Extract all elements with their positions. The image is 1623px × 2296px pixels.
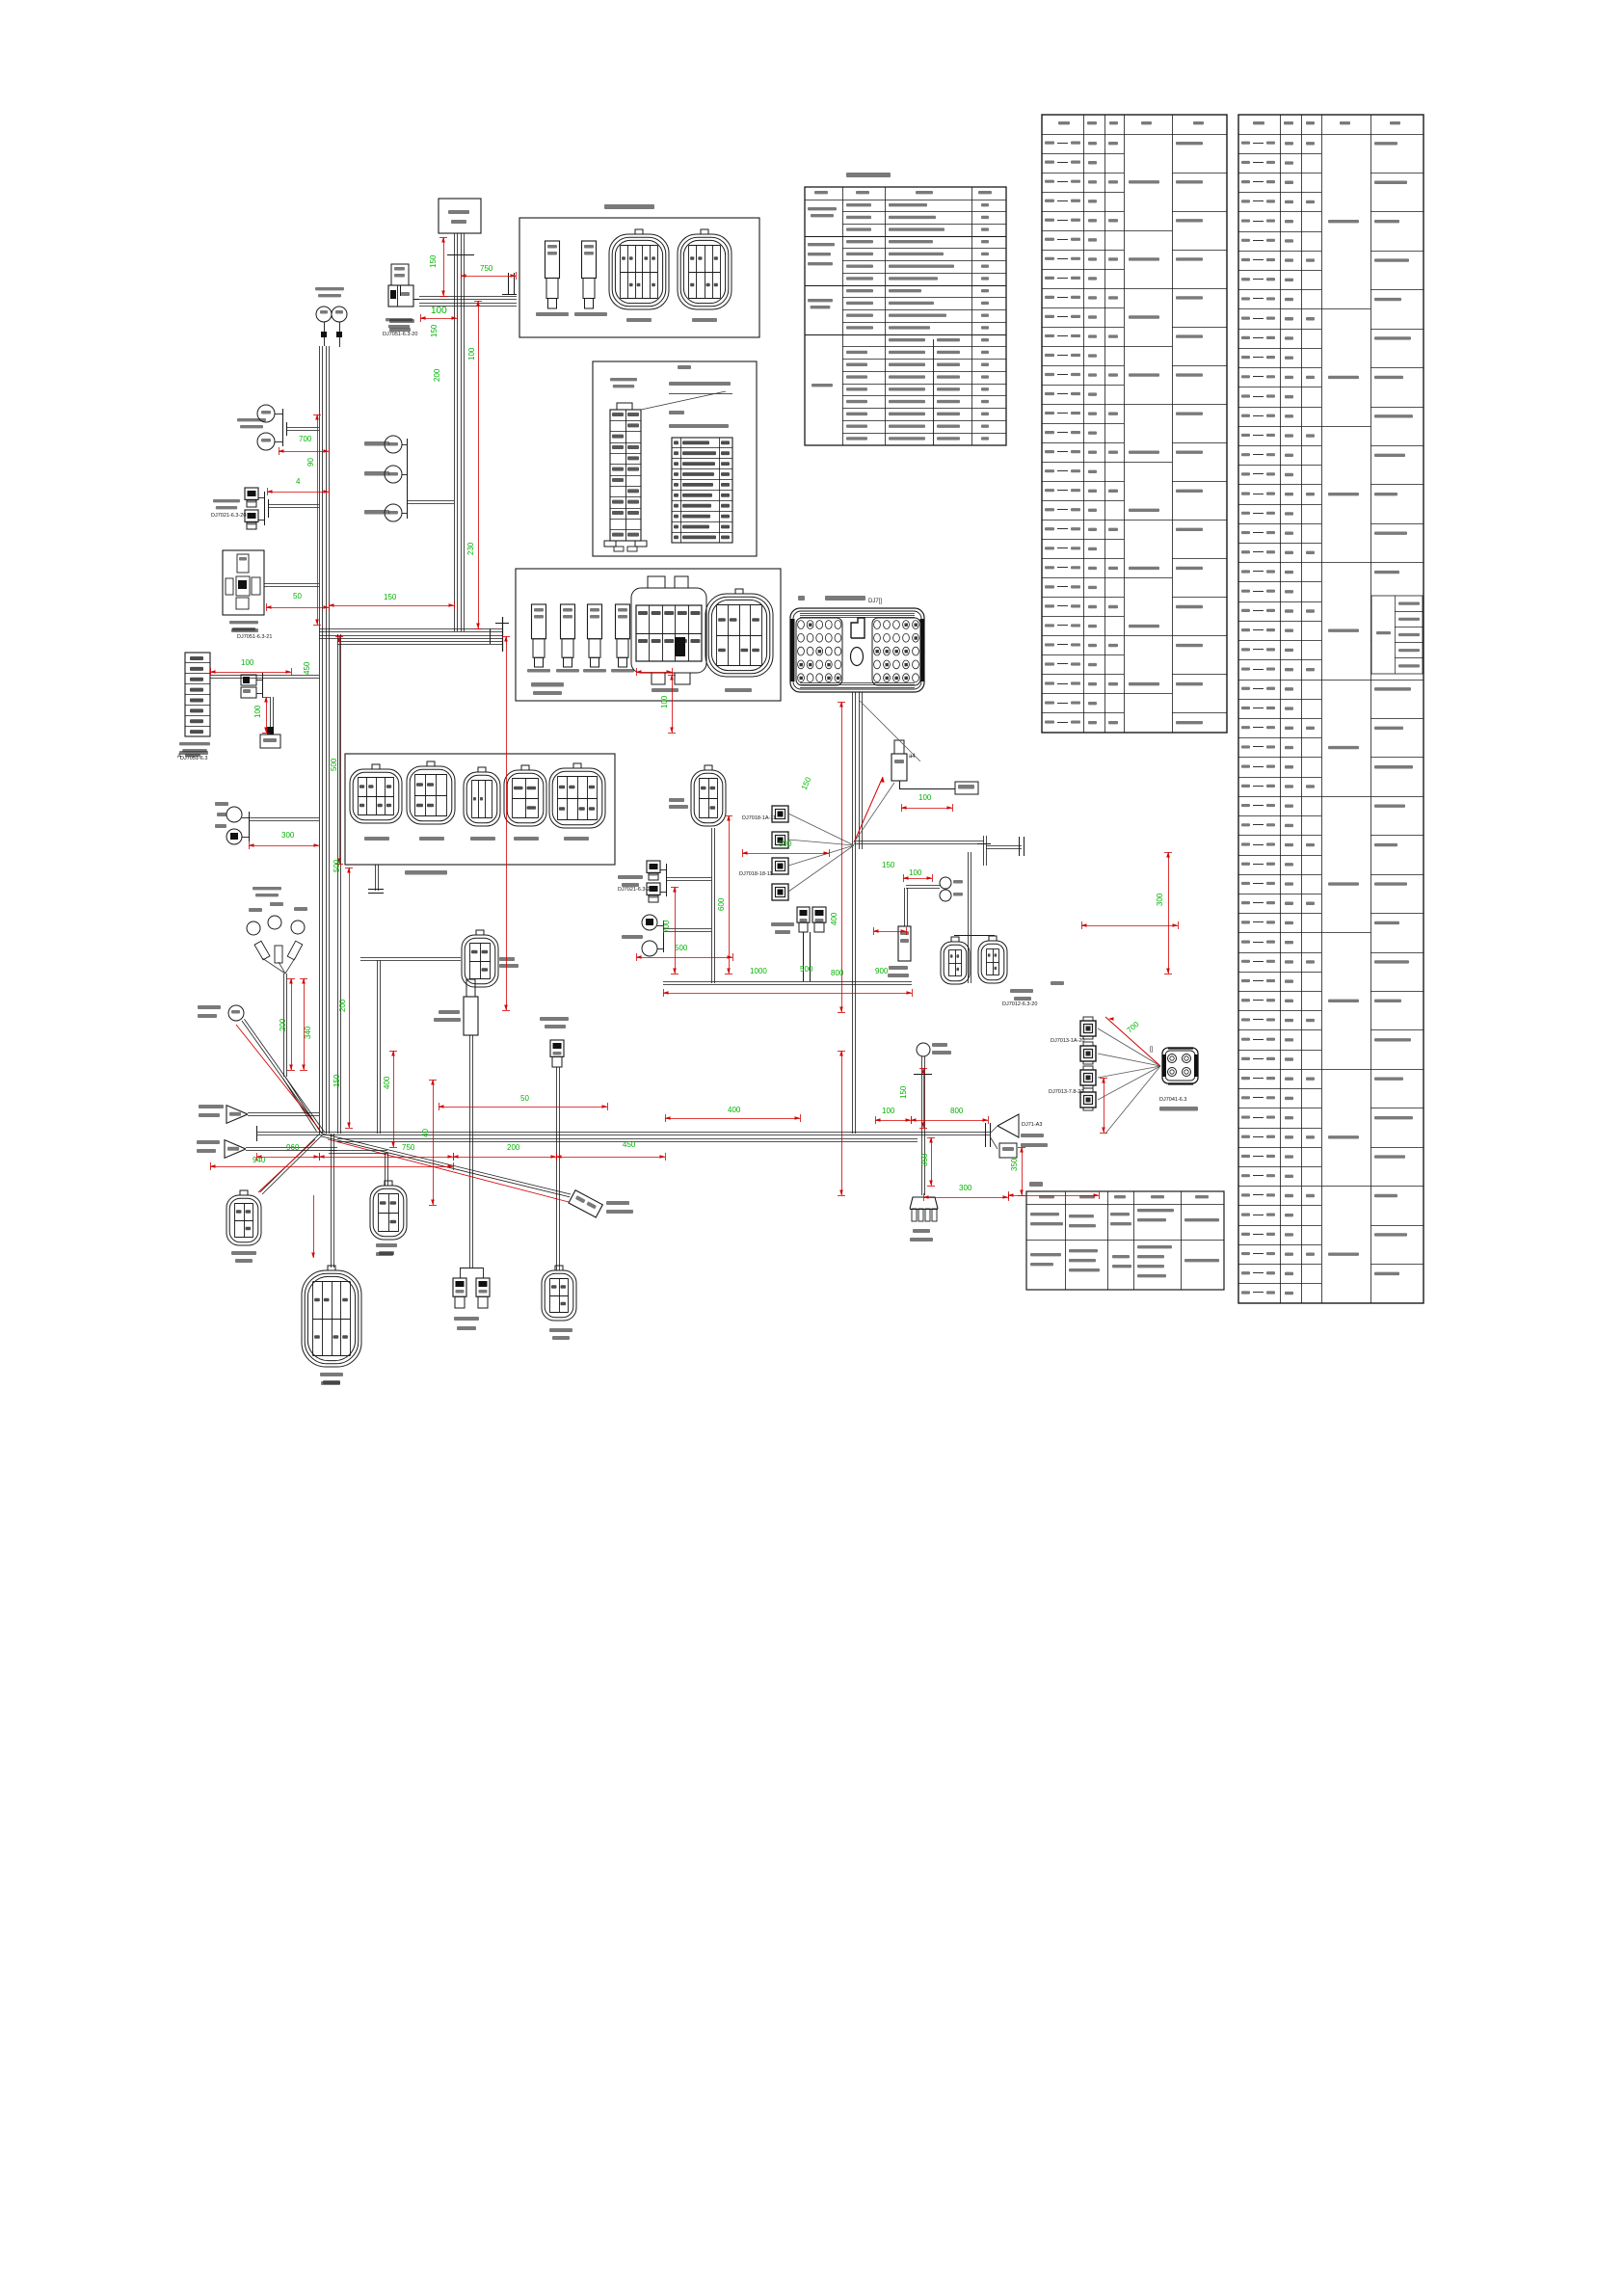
svg-text:350: 350 xyxy=(920,1153,929,1166)
svg-text:100: 100 xyxy=(909,868,922,877)
svg-text:200: 200 xyxy=(507,1143,520,1152)
svg-text:500: 500 xyxy=(779,840,792,848)
svg-text:100: 100 xyxy=(660,695,669,708)
svg-text:350: 350 xyxy=(1010,1158,1019,1171)
svg-text:1000: 1000 xyxy=(750,967,767,975)
svg-text:DJ7021-6.3-20: DJ7021-6.3-20 xyxy=(618,887,652,893)
svg-text:DJ7[]: DJ7[] xyxy=(868,599,882,604)
svg-text:300: 300 xyxy=(959,1184,972,1192)
svg-text:800: 800 xyxy=(831,969,844,977)
svg-text:340: 340 xyxy=(304,1026,312,1039)
svg-text:100: 100 xyxy=(467,347,476,360)
svg-text:DJ7012-6.3-20: DJ7012-6.3-20 xyxy=(1002,1001,1037,1007)
svg-text:150: 150 xyxy=(899,1085,908,1099)
svg-text:750: 750 xyxy=(402,1143,415,1152)
svg-text:DJ7051-6.3-20: DJ7051-6.3-20 xyxy=(383,332,417,337)
svg-text:500: 500 xyxy=(333,859,341,872)
svg-text:500: 500 xyxy=(800,965,813,974)
svg-text:DJ7013-1A-20: DJ7013-1A-20 xyxy=(1051,1038,1084,1044)
svg-text:940: 940 xyxy=(253,1156,266,1164)
svg-text:150: 150 xyxy=(384,593,397,601)
svg-text:a4: a4 xyxy=(909,754,916,760)
svg-text:150: 150 xyxy=(333,1074,341,1087)
svg-text:230: 230 xyxy=(466,542,475,555)
svg-text:400: 400 xyxy=(383,1076,391,1089)
svg-text:[]: [] xyxy=(1150,1047,1154,1053)
svg-text:700: 700 xyxy=(299,435,312,443)
svg-text:DJ71-A3: DJ71-A3 xyxy=(1022,1122,1042,1128)
svg-text:960: 960 xyxy=(286,1143,300,1152)
svg-text:40: 40 xyxy=(421,1129,430,1137)
svg-text:100: 100 xyxy=(253,705,262,718)
svg-text:500: 500 xyxy=(675,944,688,952)
svg-text:100: 100 xyxy=(882,1107,895,1115)
svg-text:200: 200 xyxy=(279,1018,287,1031)
svg-text:150: 150 xyxy=(882,861,895,869)
svg-text:450: 450 xyxy=(623,1140,636,1149)
svg-text:750: 750 xyxy=(480,264,493,273)
svg-text:900: 900 xyxy=(875,967,889,975)
svg-text:50: 50 xyxy=(293,592,302,601)
svg-text:100: 100 xyxy=(241,658,254,667)
svg-text:450: 450 xyxy=(303,661,311,675)
svg-text:150: 150 xyxy=(429,254,438,268)
svg-text:800: 800 xyxy=(950,1107,964,1115)
svg-text:300: 300 xyxy=(1156,893,1164,906)
svg-text:200: 200 xyxy=(338,999,347,1012)
svg-text:90: 90 xyxy=(306,458,315,467)
svg-text:100: 100 xyxy=(918,793,932,802)
svg-text:DJ7041-6.3: DJ7041-6.3 xyxy=(1159,1097,1186,1103)
svg-text:100: 100 xyxy=(431,306,447,316)
svg-text:400: 400 xyxy=(830,912,838,925)
svg-text:400: 400 xyxy=(728,1106,741,1114)
svg-text:50: 50 xyxy=(520,1094,529,1103)
svg-text:DJ7051-6.3-21: DJ7051-6.3-21 xyxy=(237,634,272,640)
svg-text:500: 500 xyxy=(330,758,338,771)
svg-text:700: 700 xyxy=(662,920,671,933)
svg-text:300: 300 xyxy=(281,831,295,840)
svg-text:DJ7051-6.3: DJ7051-6.3 xyxy=(180,756,207,761)
svg-text:4: 4 xyxy=(296,477,301,486)
svg-text:DJ7018-18-11: DJ7018-18-11 xyxy=(739,871,772,877)
svg-text:200: 200 xyxy=(433,368,441,382)
svg-text:DJ7021-6.3-20: DJ7021-6.3-20 xyxy=(211,513,246,519)
svg-text:DJ7018-1A-11: DJ7018-1A-11 xyxy=(742,815,776,821)
svg-text:600: 600 xyxy=(717,897,726,911)
svg-text:DJ7013-7.8-20: DJ7013-7.8-20 xyxy=(1049,1089,1083,1095)
svg-text:150: 150 xyxy=(430,324,439,337)
